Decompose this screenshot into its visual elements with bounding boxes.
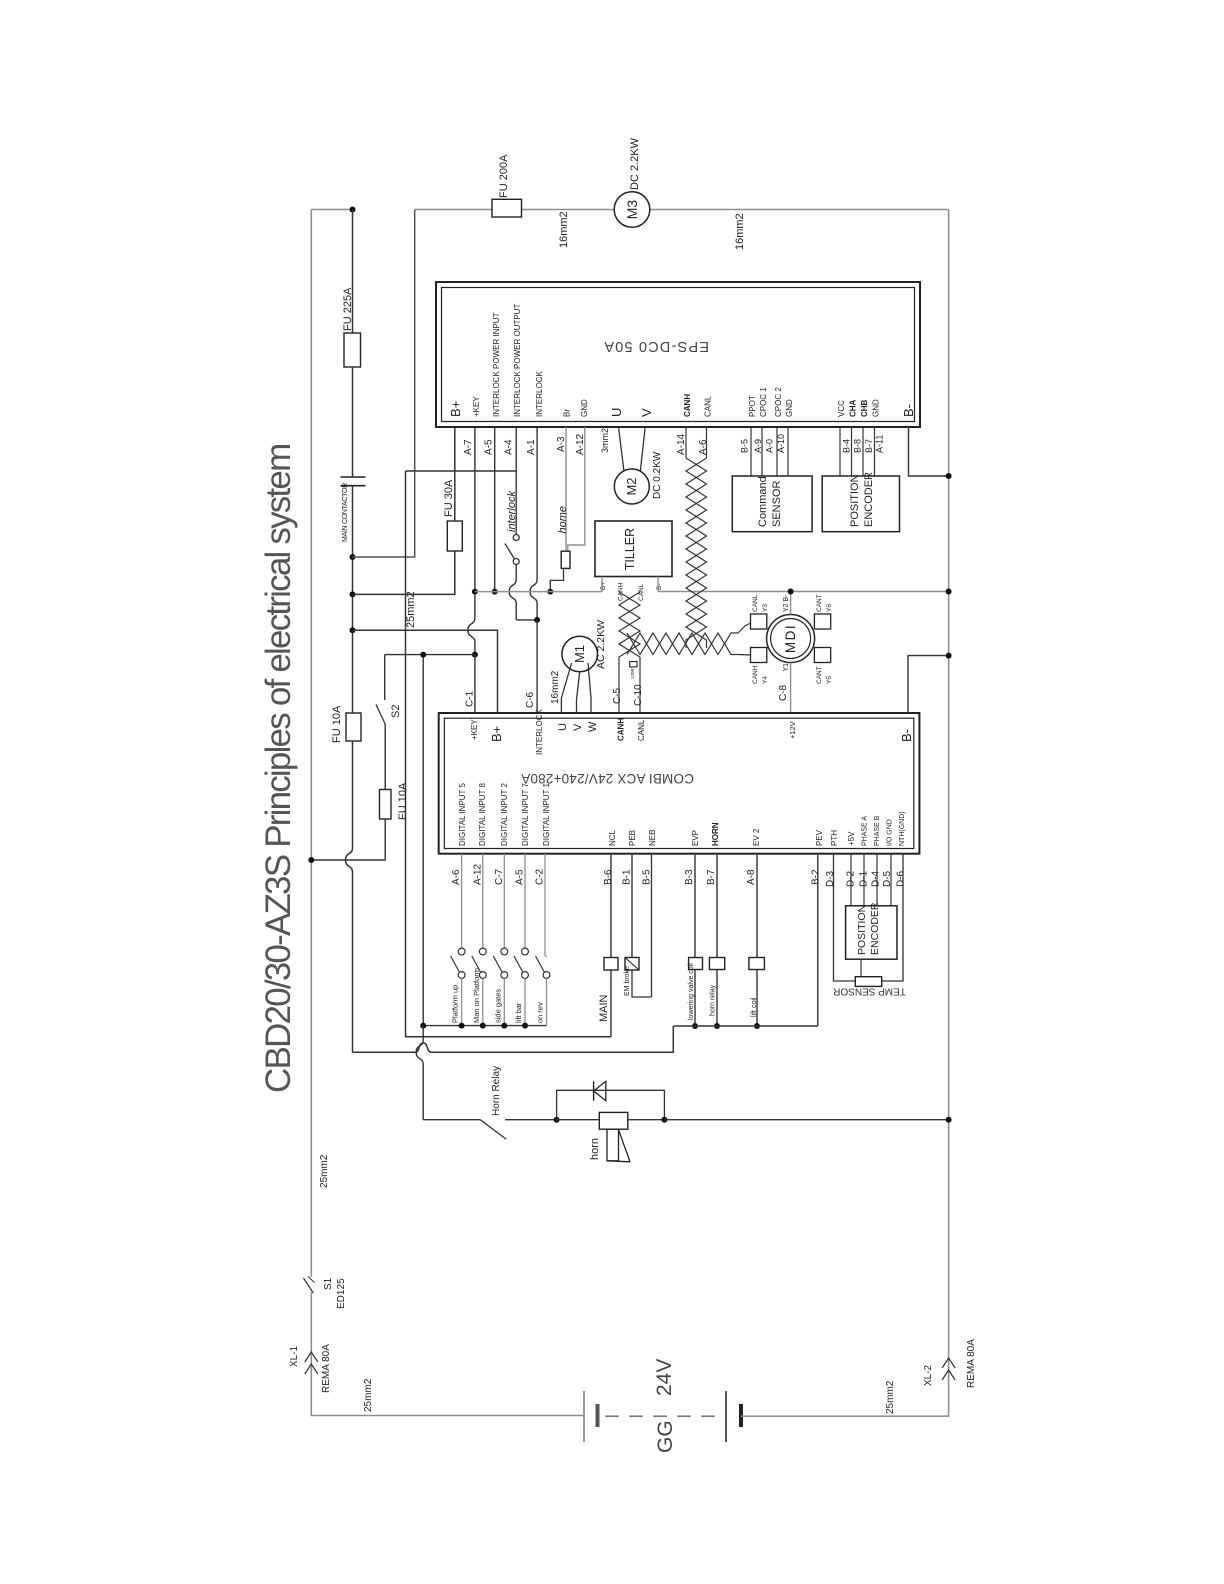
controller TILLER block [595,521,672,577]
wire encoder lead D-1 [863,854,865,906]
wire PTH D-3 to temp sensor [834,854,856,981]
wire EPS +KEY A-7 chain [468,427,475,655]
switch S1 blade [304,1278,314,1293]
motor M1 [562,636,598,672]
svg-text:A-8: A-8 [746,869,757,885]
node home rail junction [547,589,553,595]
display MDI unit [767,615,815,663]
connector XL-1 chevrons [305,1352,318,1362]
svg-text:ENCODER: ENCODER [869,902,881,955]
svg-text:POSITION: POSITION [856,905,868,955]
svg-text:A-0: A-0 [765,439,775,453]
sensor POSITION ENCODER block upper [822,476,899,532]
svg-text:GND: GND [785,399,794,417]
svg-text:B+: B+ [489,726,504,742]
svg-text:A-11: A-11 [875,435,885,453]
svg-text:INTERLOCK POWER INPUT: INTERLOCK POWER INPUT [492,312,501,417]
svg-text:CHB: CHB [860,399,869,417]
svg-text:B+: B+ [448,401,463,417]
svg-text:CANT: CANT [816,594,823,612]
svg-text:DIGITAL INPUT 7: DIGITAL INPUT 7 [521,782,530,846]
svg-text:CANL: CANL [637,719,646,741]
wire NEB B-5 return [651,854,653,997]
svg-text:C-10: C-10 [633,684,644,706]
wire COMBI B+ feed riser [353,630,498,713]
svg-text:EVP: EVP [691,830,700,846]
MDI stub Y5 CANT [814,648,830,663]
svg-text:B+: B+ [600,582,607,590]
wire position encoder leads [839,427,841,476]
wire MDI Y1 to COMBI +12V [790,663,792,714]
motor M2 [614,469,649,504]
svg-text:B-4: B-4 [842,439,852,453]
wire emergency bus riser [422,655,424,1026]
svg-text:V: V [572,723,584,731]
fuse FU 10A second [380,790,392,820]
svg-text:GND: GND [580,399,589,417]
svg-text:Y5: Y5 [826,676,833,684]
svg-text:B-: B- [656,584,663,591]
svg-text:M3: M3 [624,200,640,220]
node junction COMBI B+ branch [350,627,356,633]
svg-text:Horn Relay: Horn Relay [491,1066,502,1116]
svg-text:A-7: A-7 [463,439,474,455]
sensor POSITION ENCODER block lower [846,906,897,959]
wire EPS A-4 pin down to interlock tee [515,427,517,471]
svg-text:REMA 80A: REMA 80A [321,1344,332,1393]
wire EPS INTERLOCK A-1 chain [530,427,537,620]
svg-text:C-6: C-6 [525,691,536,708]
svg-text:ED125: ED125 [336,1278,347,1309]
svg-text:MAIN: MAIN [598,994,610,1022]
svg-text:M1: M1 [572,645,587,663]
svg-text:V: V [639,408,654,417]
node border B+ tap [308,857,314,863]
wire TILLER B+ stub to rail [601,577,603,592]
svg-text:120R: 120R [630,667,635,679]
svg-text:A-1: A-1 [526,439,537,455]
switch lift bar [522,948,529,955]
svg-text:TILLER: TILLER [623,528,637,570]
svg-text:M2: M2 [624,477,639,495]
wire horn to right rail [664,1119,948,1121]
relay Horn Relay contact [480,1120,506,1139]
svg-text:EPS-DC0 50A: EPS-DC0 50A [603,338,709,354]
svg-text:Y1: Y1 [783,663,790,672]
wire key bus horizontal [385,654,475,656]
svg-text:FU 225A: FU 225A [342,287,354,331]
wire encoder to temp sensor [860,959,862,977]
wire bottom distribution horizontal to coil bus riser [353,1026,674,1052]
svg-text:Y6: Y6 [826,604,833,612]
cable EPS CAN twisted pair [685,427,687,458]
svg-text:XL-1: XL-1 [289,1345,300,1367]
svg-text:16mm2: 16mm2 [734,213,746,250]
wire top B+ bus to M3 circuit [415,209,615,211]
svg-text:A-12: A-12 [472,863,483,885]
wire EPS A-5 pin to B+ rail [494,427,496,592]
svg-text:24V: 24V [653,1359,676,1396]
wire PEB B-1 to EM brake [631,854,633,958]
fuse FU 200A [492,199,522,217]
svg-text:CPOC 2: CPOC 2 [774,387,783,417]
svg-text:D-2: D-2 [846,870,857,887]
svg-text:DC 2.2KW: DC 2.2KW [629,137,641,190]
wire digital input A-12 [482,854,484,948]
wire FU10A down with hop to bottom distribution [346,741,353,1052]
svg-text:U: U [557,723,569,731]
wire home sensor to B+ rail [550,568,563,591]
svg-text:DC 0.2KW: DC 0.2KW [652,451,663,499]
svg-text:side gates: side gates [493,989,502,1023]
svg-text:EM broke: EM broke [624,966,631,996]
svg-text:interlock: interlock [506,491,518,532]
switch Man on Platform [479,948,486,955]
wire digital input C-2 [545,854,547,957]
wire command sensor leads [750,427,752,476]
wire EPS GND pin to home sensor [568,427,585,551]
svg-text:Man on Platform: Man on Platform [472,968,481,1023]
wire B- rail TILLER to border [658,591,949,593]
node junction FU30A branch [350,591,356,597]
sensor TEMP SENSOR [855,977,881,987]
node horn left junction [554,1117,560,1123]
svg-text:INTERLOCK POWER OUTPUT: INTERLOCK POWER OUTPUT [513,304,522,417]
svg-text:C-7: C-7 [494,868,505,885]
svg-text:U: U [609,408,624,417]
controller COMBI ACX 24V/240+280A block [439,713,920,854]
wire through horn coil [557,1119,665,1121]
svg-text:25mm2: 25mm2 [885,1380,896,1414]
svg-text:25mm2: 25mm2 [405,591,417,628]
svg-text:TEMP SENSOR: TEMP SENSOR [833,986,906,997]
node +KEY to key bus [472,652,478,658]
wire emergency riser down to horn line with hop [416,1026,423,1120]
wire main B+ feed through FU225A and main contactor [352,210,354,334]
svg-text:CANL: CANL [704,395,713,417]
svg-text:on rev: on rev [536,1002,545,1023]
svg-text:A-5: A-5 [484,439,495,455]
svg-text:DIGITAL INPUT 2: DIGITAL INPUT 2 [500,782,509,846]
svg-text:C-1: C-1 [465,690,476,707]
svg-text:S2: S2 [390,705,402,718]
svg-text:horn: horn [589,1138,601,1160]
wire NTH D-6 to temp sensor [882,854,903,981]
svg-text:CANL: CANL [752,594,759,612]
svg-text:FU 30A: FU 30A [443,479,455,517]
svg-text:CANH: CANH [683,394,692,417]
wire horn feed [423,1119,480,1121]
wire left rail below S1 [311,1292,584,1416]
svg-text:CHA: CHA [849,399,858,417]
battery GG 24V cells [583,1391,585,1442]
svg-text:POSITION: POSITION [849,474,861,527]
wire digital input C-7 [503,854,505,948]
connector XL-2 chevrons [942,1358,955,1368]
svg-text:DIGITAL INPUT 8: DIGITAL INPUT 8 [478,782,487,846]
svg-text:Y2 B-: Y2 B- [783,594,790,612]
svg-text:FU 10A: FU 10A [331,705,343,743]
coil lowering valve coil [689,958,703,970]
svg-text:A-6: A-6 [698,439,709,455]
svg-text:DIGITAL INPUT 5: DIGITAL INPUT 5 [458,782,467,846]
svg-text:PTH: PTH [830,830,839,846]
diode horn suppression [557,1090,665,1119]
wire MDI Y2 B- stub [790,592,792,615]
svg-text:INTERLOCK: INTERLOCK [535,371,544,417]
svg-text:Y3: Y3 [762,604,769,612]
node A-5 rail junction [492,589,498,595]
svg-text:lowering valve coil: lowering valve coil [688,963,695,1020]
svg-text:ENCODER: ENCODER [863,472,875,527]
svg-text:+KEY: +KEY [470,719,479,740]
wire contactor down to FU10A first [352,486,354,713]
svg-text:B-: B- [899,729,914,742]
svg-text:+KEY: +KEY [472,396,481,417]
svg-text:CPOC 1: CPOC 1 [759,387,768,417]
wire encoder lead D-5 [890,854,892,906]
svg-text:B-: B- [901,404,916,417]
wire B+ tee horizontal [406,470,517,472]
wire digital input A-5 [524,854,526,948]
svg-text:NTH(GND): NTH(GND) [899,811,906,846]
wire S2 to FU10A second [384,724,386,790]
controller EPS-DC0 50A block [436,282,920,427]
svg-text:B-5: B-5 [740,439,750,453]
horn coil [599,1112,628,1129]
svg-text:Y4: Y4 [762,676,769,684]
svg-text:A-6: A-6 [451,869,462,885]
wire B-7 to horn relay coil [716,854,718,958]
svg-text:SENSOR: SENSOR [771,480,783,527]
wire interlock output to A-1 junction [509,565,516,620]
fuse FU 10A first [346,713,361,741]
svg-text:GND: GND [872,399,881,417]
svg-text:CANH: CANH [752,665,759,684]
svg-text:+5V: +5V [847,831,856,846]
MDI stub Y4 CANH [751,648,767,663]
svg-text:16mm2: 16mm2 [550,670,561,704]
wire TILLER B- stub to rail [657,577,659,592]
switch side gates [501,948,508,955]
wire M2 motor leads [619,427,625,472]
svg-text:C-5: C-5 [612,687,623,704]
sensor Command SENSOR block [732,476,812,532]
svg-text:A-4: A-4 [504,439,515,455]
svg-text:CANH: CANH [617,718,626,741]
wire EPS Br pin to home sensor [565,427,567,551]
svg-text:16mm2: 16mm2 [558,211,570,248]
svg-text:B-2: B-2 [811,869,822,885]
horn speaker symbol [607,1129,619,1161]
MDI stub Y3 CANL [751,614,767,629]
svg-text:A-5: A-5 [515,869,526,885]
wire battery positive left rail XL-1 side [310,210,312,1278]
svg-text:B-5: B-5 [642,869,653,885]
wire MAIN coil feed riser [406,471,612,1037]
svg-text:D-1: D-1 [859,870,870,887]
svg-text:B-7: B-7 [706,869,717,885]
svg-text:B-1: B-1 [622,869,633,885]
svg-text:home: home [557,506,569,534]
svg-text:MDI: MDI [783,624,798,653]
wire A-8 to lift coil coil [756,854,758,958]
fuse FU 225A [344,333,361,367]
svg-text:Command: Command [757,476,769,527]
wire coil return bus [673,1025,818,1027]
node MDI B- junction [788,589,794,595]
wire FU10A second down to border tap [311,819,385,860]
node junction top B+ feed [350,207,356,213]
wire 25mm2 riser to top bus [353,210,415,558]
svg-text:C-2: C-2 [535,868,546,885]
switch Platform up [458,948,465,955]
wire FU30A node horizontal [353,551,455,594]
wire digital input A-6 [461,854,463,948]
node +KEY to B+ rail [472,589,478,595]
svg-text:HORN: HORN [711,822,720,846]
node EPS B- border junction [946,473,952,479]
cable CAN bus horizontal twisted pair to MDI [627,633,738,655]
svg-text:VCC: VCC [837,400,846,417]
svg-text:PEB: PEB [628,830,637,846]
svg-text:C-8: C-8 [778,684,789,701]
svg-text:INTERLOCK: INTERLOCK [535,709,544,755]
node COMBI B- border junction [946,653,952,659]
svg-text:GG: GG [654,1420,677,1453]
node horn right junction [661,1117,667,1123]
resistor CAN terminator [618,657,620,713]
node B- rail border junction [946,589,952,595]
contactor MAIN CONTACTOR [341,476,366,478]
svg-text:B-8: B-8 [853,439,863,453]
svg-text:XL-2: XL-2 [923,1364,934,1386]
svg-text:D-6: D-6 [896,870,907,887]
wire EM brake return loop [632,970,652,997]
wire FU30A up to EPS B+ pin [454,427,456,521]
svg-text:CBD20/30-AZ3S Principles of el: CBD20/30-AZ3S Principles of electrical s… [259,445,298,1093]
svg-text:FU 10A: FU 10A [397,782,409,820]
svg-text:FU 200A: FU 200A [498,154,510,198]
MDI stub Y6 CANT [814,614,830,629]
wire NCL B-6 to MAIN coil [610,854,612,958]
switch S2 [384,655,386,700]
wire B-3 to lowering valve coil coil [694,854,696,958]
switch on rev [536,956,545,973]
svg-text:I/O GND: I/O GND [887,819,894,846]
wire COMBI B- to right rail [908,656,949,713]
svg-text:MAIN CONTACTOR: MAIN CONTACTOR [342,483,349,542]
svg-text:NEB: NEB [648,830,657,846]
node junction M3 branch [350,554,356,560]
wire A-1 down to COMBI INTERLOCK pin [536,620,538,713]
wire M1 motor leads [561,663,571,713]
wire encoder lead D-2 [850,854,852,906]
svg-text:CANT: CANT [816,666,823,684]
svg-text:B-3: B-3 [684,869,695,885]
svg-text:D-4: D-4 [871,870,882,887]
svg-text:PHASE B: PHASE B [874,815,881,846]
svg-text:lift bar: lift bar [514,1002,523,1023]
wire encoder lead D-4 [876,854,878,906]
svg-text:3mm2: 3mm2 [600,428,610,453]
svg-text:D-5: D-5 [882,870,893,887]
wire B+ rail [475,591,602,593]
switch interlock [515,471,517,535]
wire horn relay to coil node [505,1119,557,1121]
coil lift coil [749,958,765,970]
fuse FU 30A [447,521,462,551]
wire +KEY down to COMBI +KEY pin [474,655,476,713]
svg-text:25mm2: 25mm2 [363,1378,374,1412]
svg-text:PPOT: PPOT [748,395,757,417]
node horn border junction [946,1117,952,1123]
coil horn relay [709,958,724,970]
svg-text:CANH: CANH [618,582,625,601]
svg-text:B-7: B-7 [864,439,874,453]
svg-text:W: W [587,721,599,732]
svg-text:PEV: PEV [815,829,824,846]
wire MAIN coil return [610,970,612,1037]
cable TILLER CAN twisted pair [619,592,640,657]
svg-text:Platform up: Platform up [451,985,460,1023]
svg-text:Br: Br [563,409,572,417]
wire FU225A to main contactor [352,367,354,477]
brake EM broke coil [625,958,639,971]
svg-text:PHASE A: PHASE A [862,816,869,846]
svg-text:S1: S1 [323,1277,334,1290]
svg-text:lift coil: lift coil [751,997,758,1017]
motor M3 [614,192,650,228]
svg-text:AC 2.2KW: AC 2.2KW [595,620,607,669]
wire battery negative to right rail [741,210,949,1417]
svg-text:horn relay: horn relay [710,984,717,1016]
svg-text:B-6: B-6 [603,869,614,885]
svg-text:25mm2: 25mm2 [319,1154,330,1188]
wire EV2 A-8 B-2 return riser [817,854,819,1026]
svg-text:A-14: A-14 [676,433,687,455]
coil MAIN contactor coil [604,958,618,971]
wire top-left corner to FU225A node [311,209,352,211]
svg-text:DIGITAL INPUT 1: DIGITAL INPUT 1 [542,782,551,846]
node interlock junction [534,617,540,623]
svg-text:REMA 80A: REMA 80A [966,1339,977,1388]
svg-text:NCL: NCL [608,829,617,846]
wire switch return bus [423,1025,546,1027]
svg-text:D-3: D-3 [825,870,836,887]
sensor home proximity switch [561,551,570,568]
wire EPS B- to right rail [909,427,949,476]
svg-text:EV 2: EV 2 [752,828,761,846]
svg-text:+12V: +12V [788,721,797,739]
